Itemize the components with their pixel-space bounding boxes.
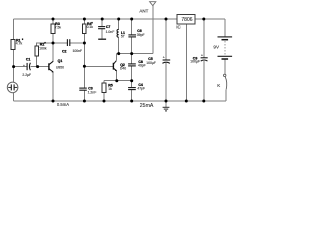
wire R2 bottom lead xyxy=(36,56,38,67)
junction node C7 top rail xyxy=(101,18,104,21)
capacitor C6 plates xyxy=(128,34,136,36)
wire C9 bottom lead xyxy=(203,61,205,101)
wire C2 right lead xyxy=(70,42,84,44)
junction node L1 bottom / collector wire xyxy=(117,52,120,55)
junction node R4 / C2 / R2 branch xyxy=(83,42,86,45)
wire R3 top lead xyxy=(52,19,54,24)
svg-text:Q1: Q1 xyxy=(58,59,63,63)
svg-text:1k: 1k xyxy=(108,87,112,91)
transistor Q2 xyxy=(113,61,116,71)
wire C2 left lead xyxy=(53,42,67,44)
wire 7806 ground pin xyxy=(185,24,187,101)
svg-text:7806: 7806 xyxy=(181,17,192,23)
inductor L1 coil xyxy=(117,29,119,37)
svg-text:+: + xyxy=(23,64,25,68)
capacitor C5 curved plate xyxy=(162,62,170,63)
wire C6 top lead xyxy=(131,19,133,35)
junction node C8 bottom / C4 top xyxy=(130,79,133,82)
wire left rail mid (R1 to mic) xyxy=(13,49,15,83)
microphone B xyxy=(7,82,18,93)
svg-text:39pF: 39pF xyxy=(137,33,145,37)
svg-text:C1: C1 xyxy=(26,58,31,62)
wire ground stub xyxy=(165,101,167,107)
junction node Q1 base / R2 / C1 xyxy=(36,65,39,68)
wire R3 bottom / Q1 collector vertical xyxy=(52,34,54,61)
wire antenna vertical xyxy=(152,6,154,54)
capacitor C1 plate left xyxy=(26,63,28,70)
junction node 7806 ground pin bottom rail xyxy=(185,100,188,103)
junction node C6 top rail xyxy=(130,18,133,21)
wire battery to switch xyxy=(224,60,226,75)
capacitor C8 plates xyxy=(128,63,136,65)
svg-text:K: K xyxy=(217,83,220,88)
svg-text:2.2µF: 2.2µF xyxy=(22,73,31,77)
capacitor C9 flat plate xyxy=(201,57,208,59)
wire left rail upper xyxy=(13,19,15,40)
IC 7806 box xyxy=(177,15,195,24)
wire node x84 vertical down to C3 xyxy=(83,43,85,88)
resistor R1 xyxy=(11,40,15,50)
wire bottom rail xyxy=(14,100,226,102)
junction node C9 bottom rail xyxy=(202,100,205,103)
switch K xyxy=(224,74,227,89)
wire R4 bottom lead xyxy=(83,34,85,43)
wire L1 top lead xyxy=(118,19,120,29)
junction node C4 bottom rail xyxy=(130,100,133,103)
capacitor C7 plates xyxy=(98,26,105,28)
transistor Q1 xyxy=(49,61,54,72)
resistor R5 xyxy=(102,83,106,93)
antenna symbol xyxy=(150,2,156,6)
resistor R4 xyxy=(83,24,87,34)
junction node C5 top rail xyxy=(165,18,168,21)
wire L1 bottom lead xyxy=(118,37,120,53)
wire C3 bottom lead xyxy=(83,91,85,102)
wire top rail left of IC xyxy=(14,18,177,20)
wire Q2 collector vertical xyxy=(115,54,117,61)
svg-text:7.5k: 7.5k xyxy=(55,26,62,30)
svg-text:1.0nF: 1.0nF xyxy=(106,30,115,34)
capacitor C4 plates xyxy=(128,87,136,89)
capacitor C2 plates xyxy=(66,39,68,46)
wire R5 top lead xyxy=(103,81,105,83)
battery B1 dashed middle xyxy=(224,41,226,56)
wire C1 left lead xyxy=(14,66,27,68)
svg-text:0.1k: 0.1k xyxy=(87,25,94,29)
svg-text:5T: 5T xyxy=(121,35,125,39)
svg-text:+: + xyxy=(201,53,203,57)
svg-text:IC: IC xyxy=(176,25,180,30)
wire C8 top lead xyxy=(131,54,133,64)
junction node Q1 emitter bottom rail xyxy=(52,100,55,103)
wire Q2 emitter vertical xyxy=(116,71,118,81)
junction node Q1 collector / R3 / C2 xyxy=(52,42,55,45)
battery B1 short plate bottom xyxy=(222,58,229,60)
svg-text:25mA: 25mA xyxy=(140,103,154,109)
wire Q2 base wire xyxy=(84,65,113,67)
svg-text:47pF: 47pF xyxy=(137,86,145,90)
wire C6 bottom lead xyxy=(131,37,133,53)
wire emitter node horizontal xyxy=(104,80,132,82)
junction node Q2 base branch xyxy=(83,65,86,68)
wire C9 top lead xyxy=(203,19,205,58)
capacitor C9 curved plate xyxy=(201,60,208,61)
resistor R2 xyxy=(35,46,39,56)
capacitor C3 plates xyxy=(79,87,87,89)
junction node C5 / ground bottom rail xyxy=(165,100,168,103)
junction node C6 bottom / collector wire xyxy=(130,52,133,55)
wire C5 top lead xyxy=(165,19,167,60)
capacitor C1 plate right curved xyxy=(28,63,31,71)
capacitor C7 ground bar xyxy=(98,38,106,40)
svg-text:ANT: ANT xyxy=(139,8,148,13)
wire R2 top lead to node xyxy=(37,43,53,46)
svg-text:4.7k: 4.7k xyxy=(16,41,23,45)
svg-text:40pF: 40pF xyxy=(138,63,146,67)
wire collector node horizontal xyxy=(116,53,153,55)
junction node C3 bottom rail xyxy=(83,100,86,103)
junction node R3 top rail xyxy=(52,18,55,21)
junction node Q2 emitter / R5 wire xyxy=(115,79,118,82)
wire C4 top lead xyxy=(131,81,133,88)
svg-text:C7: C7 xyxy=(106,25,111,29)
wire R5 bottom lead xyxy=(103,93,105,101)
svg-text:9V: 9V xyxy=(213,44,220,49)
wire C7 bottom lead xyxy=(101,29,103,39)
capacitor C5 flat plate xyxy=(163,59,171,61)
svg-text:1.2nF: 1.2nF xyxy=(88,90,97,94)
wire battery top lead xyxy=(224,19,226,36)
svg-text:100nF: 100nF xyxy=(73,49,83,53)
svg-text:D40: D40 xyxy=(120,67,126,71)
wire C4 bottom lead xyxy=(131,90,133,101)
svg-text:100k: 100k xyxy=(39,46,47,50)
svg-text:100µF: 100µF xyxy=(146,61,156,65)
wire C8 bottom lead xyxy=(131,66,133,81)
resistor R3 xyxy=(51,24,55,34)
wire C7 top lead xyxy=(101,19,103,26)
junction node R4 top rail xyxy=(83,18,86,21)
svg-text:+: + xyxy=(163,56,165,60)
wire C1 right to Q1 base xyxy=(31,66,49,68)
battery B1 long plate bottom xyxy=(218,55,233,57)
junction node C1 left rail xyxy=(12,65,15,68)
junction node C9 regulator output xyxy=(202,18,205,21)
svg-text:C2: C2 xyxy=(62,49,67,53)
svg-text:100µF: 100µF xyxy=(190,60,200,64)
junction node R5 bottom rail xyxy=(103,100,106,103)
wire top rail right of IC xyxy=(195,18,225,20)
wire C5 bottom lead xyxy=(165,63,167,101)
wire left rail lower (mic to bottom) xyxy=(13,93,15,102)
junction node L1 top rail xyxy=(117,18,120,21)
svg-text:0.5mA: 0.5mA xyxy=(57,102,69,107)
wire switch bottom lead xyxy=(225,89,227,101)
wire R4 top lead xyxy=(83,19,85,24)
battery B1 long plate top xyxy=(218,36,233,38)
ground symbol xyxy=(163,107,170,111)
battery B1 short plate top xyxy=(222,39,229,41)
wire Q1 emitter vertical xyxy=(52,72,54,101)
svg-text:U850: U850 xyxy=(56,65,64,69)
